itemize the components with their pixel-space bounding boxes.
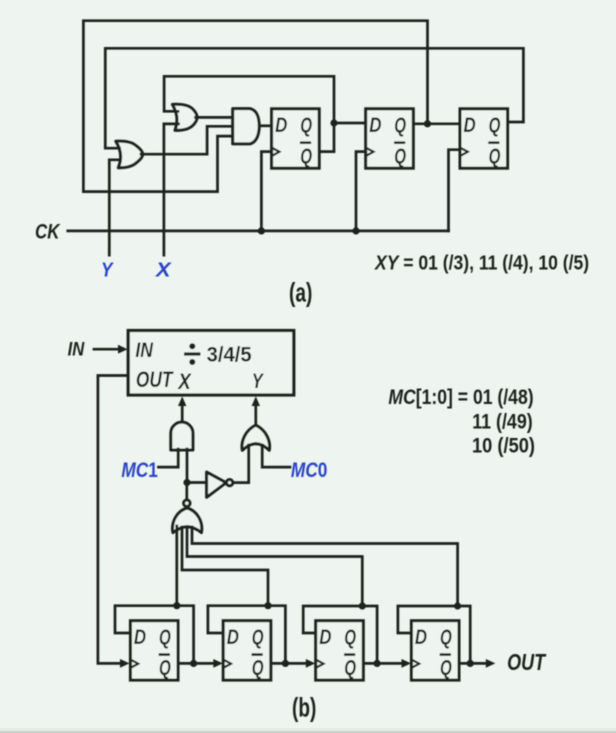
- wire OR U6 output arrow to Y port: [254, 405, 257, 425]
- wire MC0 to OR U6 input 2: [262, 445, 290, 467]
- svg-text:11 (/49): 11 (/49): [472, 411, 533, 434]
- wire FF2 Q to FF3 D: [413, 122, 460, 125]
- wire AND U5 output arrow to X port: [181, 405, 184, 422]
- wire FF5 feedback loop Qbar to D: [115, 606, 194, 664]
- wire AND output to FF1 D: [259, 124, 271, 127]
- svg-text:X: X: [177, 369, 192, 394]
- or-gate U6 (MC0 OR): [242, 425, 270, 450]
- svg-text:IN: IN: [135, 339, 153, 362]
- node FF5 loop top junction: [173, 602, 180, 609]
- wire X input to OR U1 bottom input: [164, 124, 179, 255]
- node FF7 loop top junction: [359, 602, 366, 609]
- flip-flop FF3: [460, 109, 508, 168]
- or-gate U1 (top OR feeding AND): [172, 104, 197, 130]
- wire inverter output to OR U6 input 1: [233, 445, 249, 483]
- node FF8 Qbar junction: [467, 660, 474, 667]
- wire FF3 clock riser: [449, 150, 461, 231]
- svg-text:OUT: OUT: [136, 367, 174, 392]
- wire FF1 clock drop: [261, 152, 271, 231]
- svg-text:(a): (a): [289, 277, 312, 307]
- wire OUT loop down to FF chain clock: [98, 376, 128, 664]
- wire FF1 Qbar to FF2 D: [319, 123, 366, 152]
- wire FF8 Qbar to OUT: [470, 662, 486, 665]
- nor-gate U8 (4-input NOR): [173, 508, 202, 533]
- wire junction to AND U5 input 2: [186, 449, 189, 483]
- node FF2.Q/FF3.D junction: [424, 120, 431, 127]
- wire loop1 (FF2.Q node to AND input 3 via top outer feedback): [83, 21, 427, 192]
- wire MC1 to AND U5 input 1: [159, 449, 179, 467]
- label divide sign: [184, 343, 201, 365]
- svg-text:MC1: MC1: [121, 459, 158, 482]
- svg-text:10 (/50): 10 (/50): [472, 435, 535, 458]
- wire NOR input C to FF7 loop: [187, 528, 362, 606]
- flip-flop FF7: [316, 621, 364, 680]
- svg-text:MC0: MC0: [291, 459, 328, 482]
- wire FF6 Qbar to FF7 clock: [285, 662, 306, 665]
- wire NOR input B to FF6 loop: [182, 527, 268, 606]
- flip-flop FF1: [272, 109, 320, 168]
- flip-flop FF5: [130, 621, 178, 680]
- and-gate U5 (MC1 AND): [171, 422, 193, 450]
- wire OR U2 output to AND input 2: [141, 126, 233, 154]
- svg-text:MC[1:0] = 01 (/48): MC[1:0] = 01 (/48): [388, 386, 533, 409]
- svg-text:IN: IN: [68, 338, 85, 360]
- node FF5 Qbar junction: [190, 660, 197, 667]
- inverter U7: [207, 472, 227, 497]
- wire FF8 feedback loop Qbar to D: [398, 606, 470, 663]
- divider block U4 (divide by 3/4/5): [128, 331, 294, 396]
- node FF7 Qbar junction: [374, 660, 381, 667]
- wire loop2 (FF3.Q to OR U2 top input): [105, 48, 523, 148]
- wire FF7 feedback loop Qbar to D: [303, 606, 377, 663]
- wire NOR input D to FF8 loop: [192, 527, 458, 606]
- svg-text:OUT: OUT: [507, 649, 547, 675]
- wire junction to inverter input: [187, 481, 207, 484]
- wire FF7 Qbar to FF8 clock: [377, 662, 402, 665]
- wire FF5 Qbar to FF6 clock: [194, 662, 214, 665]
- wire FF2 clock drop: [356, 152, 366, 231]
- wire NOR output to junction: [185, 483, 188, 500]
- and-gate U3 (3-input AND): [233, 109, 260, 144]
- node FF6 loop top junction: [264, 602, 271, 609]
- wire FF6 feedback loop Qbar to D: [208, 606, 286, 664]
- wire NOR input A to FF5 loop: [175, 526, 178, 606]
- svg-text:CK: CK: [35, 220, 61, 243]
- wire OR U1 output to AND input 1: [196, 116, 233, 119]
- flip-flop FF2: [366, 109, 414, 168]
- node FF1.Qbar/FF2.D junction: [330, 119, 337, 126]
- flip-flop FF6: [223, 621, 271, 680]
- node CK/FF1 clock junction: [258, 227, 265, 234]
- svg-text:Y: Y: [252, 370, 265, 393]
- flip-flop FF8: [411, 621, 459, 680]
- wire CK line: [68, 230, 449, 233]
- svg-text:XY = 01 (/3), 11 (/4), 10 (/5): XY = 01 (/3), 11 (/4), 10 (/5): [374, 253, 589, 275]
- bottom edge shading: [0, 729, 616, 733]
- node NOR output junction: [183, 479, 190, 486]
- wire IN arrow: [94, 348, 120, 351]
- wire Y input to OR U2 bottom input: [109, 160, 120, 255]
- svg-text:3/4/5: 3/4/5: [207, 343, 252, 366]
- svg-text:Y: Y: [101, 259, 114, 282]
- node FF6 Qbar junction: [282, 660, 289, 667]
- node FF8 loop top junction: [454, 602, 461, 609]
- node CK/FF2 clock junction: [352, 227, 359, 234]
- svg-text:X: X: [155, 259, 172, 282]
- svg-text:(b): (b): [292, 692, 316, 722]
- or-gate U2 (lower OR): [116, 141, 143, 168]
- wire loop3 (FF1.Qbar node to OR U1 top input): [164, 76, 334, 123]
